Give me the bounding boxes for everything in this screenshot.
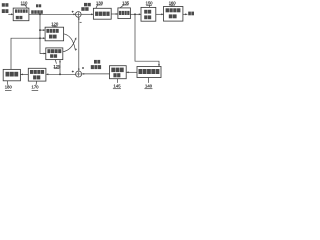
- label output bitstream: [188, 12, 191, 16]
- wire into U120 upper: [40, 29, 45, 31]
- node reference cross: [39, 37, 41, 39]
- block U180 storage: [3, 69, 20, 80]
- block U135 quantize: [118, 8, 130, 19]
- wire U150 to U160: [156, 13, 164, 15]
- sign minus A1: [80, 21, 82, 23]
- wire into U120 lower: [40, 37, 45, 39]
- label reconstructed line2: [91, 65, 94, 69]
- wire U135 to U150: [130, 13, 141, 15]
- wire cross intra to up: [63, 39, 76, 52]
- label preprocessed line2: [31, 10, 34, 14]
- svg-text:130: 130: [96, 0, 104, 5]
- svg-text:140: 140: [145, 83, 153, 88]
- label input image line2: [2, 9, 5, 13]
- svg-text:110: 110: [20, 0, 27, 5]
- block U120 inter prediction: [45, 27, 64, 41]
- sign plus A2 left: [72, 71, 74, 73]
- sign plus A1: [72, 11, 74, 13]
- svg-text:160: 160: [169, 0, 177, 5]
- label preprocessed line1: [36, 4, 38, 7]
- wire input to U110: [8, 13, 13, 15]
- block U130 transform: [93, 8, 111, 19]
- wire up to U125 bottom: [59, 60, 61, 74]
- wire A1 to U130: [81, 13, 93, 15]
- block U170 loop filter: [28, 68, 46, 81]
- label residual line2: [81, 7, 84, 11]
- node intra reference: [59, 73, 61, 75]
- node branch preprocessed image: [39, 13, 41, 15]
- node inter input: [39, 29, 41, 31]
- wire cross inter to down: [64, 34, 76, 50]
- label input image line1: [2, 3, 5, 6]
- wire U140 to U145: [126, 71, 137, 73]
- block U140 inverse quantize: [137, 67, 161, 78]
- block U125 intra prediction: [46, 48, 63, 60]
- block U160 bitstream: [164, 7, 183, 22]
- label residual line1: [84, 3, 87, 6]
- svg-text:135: 135: [122, 0, 130, 5]
- svg-text:145: 145: [113, 83, 121, 88]
- sign plus A2 top: [82, 67, 84, 69]
- adder A2 reconstruction: [76, 71, 82, 77]
- svg-text:180: 180: [5, 85, 13, 90]
- wire branch down to U125: [40, 14, 46, 53]
- wire feedback U135 to U140: [135, 14, 159, 66]
- wire filter to storage: [21, 73, 29, 75]
- wire output: [183, 13, 188, 15]
- wire U145 to adder A2: [82, 73, 110, 75]
- svg-text:150: 150: [145, 1, 153, 6]
- wire prediction vertical: [78, 17, 80, 71]
- node feedback tap: [134, 13, 136, 15]
- adder A1 residual: [76, 12, 82, 18]
- wire U110 to adder A1: [29, 13, 76, 15]
- wire storage to U120: [11, 38, 40, 69]
- block U110 preprocess: [13, 8, 29, 21]
- label reconstructed line1: [94, 60, 97, 64]
- block U150 entropy code: [141, 7, 156, 21]
- svg-text:170: 170: [31, 85, 39, 90]
- wire U130 to U135: [111, 13, 118, 15]
- wire A2 to filter: [46, 73, 75, 75]
- block U145 inverse transform: [110, 66, 127, 79]
